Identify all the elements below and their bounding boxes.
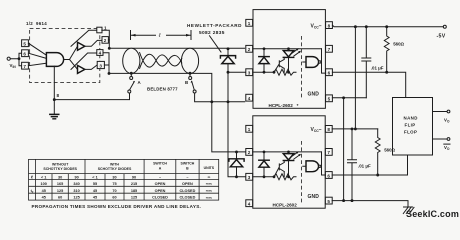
- node VIN junction: [18, 57, 21, 60]
- node schottky2 bottom: [235, 175, 238, 178]
- svg-text:55: 55: [93, 182, 97, 186]
- wire line top conductor: [109, 47, 244, 49]
- svg-text:CLOSED: CLOSED: [152, 196, 168, 200]
- schottky diode bottom (external): [236, 152, 238, 159]
- svg-text:ℓ: ℓ: [158, 33, 161, 39]
- svg-text:ℓ: ℓ: [31, 174, 33, 179]
- svg-text:–: –: [159, 175, 161, 179]
- wire ground rail to switch A: [54, 93, 129, 100]
- wire pin3 to bus: [104, 64, 109, 66]
- svg-text:WITH: WITH: [110, 162, 119, 166]
- resistor R2 560 ohm: [375, 129, 380, 175]
- wire VCC rail top: [332, 25, 443, 27]
- svg-text:30: 30: [58, 175, 62, 179]
- U3 internal resistor: [274, 174, 296, 180]
- svg-text:< 1: < 1: [92, 175, 97, 179]
- node lower rail at diode column: [227, 100, 230, 103]
- U2 output wiring to pin 6: [322, 49, 326, 73]
- U3 pin 4: [246, 200, 253, 207]
- U3 output wiring to pin 6: [322, 152, 326, 175]
- svg-text:4: 4: [99, 51, 102, 56]
- resistor R1 560 ohm: [384, 27, 389, 72]
- switch B: [190, 73, 194, 90]
- wire U3 pin5 GND row to chassis ground: [332, 201, 408, 207]
- svg-text:-5V: -5V: [437, 34, 446, 40]
- svg-text:FLIP: FLIP: [405, 123, 416, 128]
- wire VCC drop to U3 rail: [354, 27, 356, 129]
- U3 pin 2: [246, 149, 253, 156]
- svg-text:.01 μF: .01 μF: [371, 65, 384, 70]
- U2 pin 3: [246, 69, 253, 76]
- U2 internal LED: [283, 51, 293, 57]
- svg-text:PROPAGATION TIMES SHOWN EXCLUD: PROPAGATION TIMES SHOWN EXCLUDE DRIVER A…: [32, 204, 202, 209]
- wire driver gate ground stem pin 8: [53, 66, 55, 114]
- svg-text:HCPL-2602 *: HCPL-2602 *: [269, 103, 299, 108]
- svg-text:SWITCH: SWITCH: [153, 162, 167, 166]
- U3 internal input rows: [253, 152, 322, 177]
- svg-text:1/2 9614: 1/2 9614: [26, 21, 47, 26]
- node bottom bus junction: [108, 72, 111, 75]
- U3 pin 6: [325, 172, 332, 179]
- pin 3 driver: [97, 61, 104, 68]
- terminal +5V: [443, 25, 446, 28]
- svg-text:nsec: nsec: [206, 182, 213, 186]
- svg-text:5082 2835: 5082 2835: [199, 30, 225, 36]
- svg-text:FLOP: FLOP: [404, 130, 417, 135]
- U2 internal resistor: [274, 69, 296, 75]
- U2 LED light arrows: [292, 49, 300, 56]
- U3 isolation dashed line: [301, 141, 303, 203]
- schottky diode top (external): [227, 49, 229, 56]
- U3 pin 1: [246, 125, 253, 132]
- table data texts: [31, 174, 213, 199]
- svg-text:70: 70: [112, 189, 116, 193]
- wire switch B to lower rail: [195, 93, 245, 102]
- pin 2 driver: [102, 37, 108, 44]
- U3 internal protection diode: [263, 152, 265, 177]
- svg-text:CLOSED: CLOSED: [179, 189, 195, 193]
- svg-text:560Ω: 560Ω: [384, 148, 395, 153]
- svg-text:< 1: < 1: [41, 175, 46, 179]
- wire diode column down to lower rail: [228, 72, 246, 177]
- node GND bus at drop: [342, 96, 345, 99]
- node cable right shield bottom: [189, 72, 192, 75]
- node VCC rail to lower opto: [354, 25, 357, 28]
- svg-text:60: 60: [58, 196, 62, 200]
- U2 pin 5: [326, 95, 333, 102]
- node schottky top to line: [227, 47, 230, 50]
- wire U2 pin5 GND to ground bus: [332, 97, 366, 99]
- wire output VO-bar: [433, 138, 448, 140]
- U2 pin 1: [246, 19, 253, 26]
- wire pin1 to line bus: [102, 30, 110, 48]
- node R1 bottom on pin6 row: [385, 71, 388, 74]
- U3 internal transistor: [274, 161, 284, 177]
- svg-text:OPEN: OPEN: [155, 189, 166, 193]
- AND gate driver: [46, 53, 63, 67]
- node schottky2 top: [235, 150, 238, 153]
- pin 5: [22, 40, 29, 47]
- svg-text:5: 5: [23, 41, 26, 46]
- node cable left shield bottom: [130, 72, 133, 75]
- pointer line to schottky diode: [210, 36, 222, 52]
- wire output VO: [433, 111, 448, 113]
- svg-text:2: 2: [248, 150, 251, 155]
- svg-text:8: 8: [327, 127, 330, 132]
- wire pin 3 row top opto: [228, 71, 246, 73]
- switch A: [130, 73, 135, 90]
- U3 internal LED: [283, 154, 293, 160]
- node GND row at drop: [342, 199, 345, 202]
- svg-text:185: 185: [131, 189, 137, 193]
- svg-text:8: 8: [57, 93, 60, 98]
- node VCC rail to R1: [385, 25, 388, 28]
- svg-text:SWITCH: SWITCH: [180, 162, 194, 166]
- node schottky bottom to pin3 row: [227, 71, 230, 74]
- node C2 bottom on GND row: [351, 199, 354, 202]
- svg-text:45: 45: [42, 189, 46, 193]
- svg-text:165: 165: [57, 182, 63, 186]
- svg-text:90: 90: [74, 175, 78, 179]
- svg-text:nsec: nsec: [206, 196, 213, 200]
- wire pin2 to bus: [107, 39, 110, 41]
- dimension arrow cable length: [131, 31, 192, 40]
- svg-text:UNITS: UNITS: [204, 166, 215, 170]
- table header texts: [43, 162, 214, 171]
- node R2 bottom on U3 pin6 row: [376, 174, 379, 177]
- U2 pin 8: [326, 22, 333, 29]
- svg-text:30: 30: [112, 175, 116, 179]
- svg-text:HEWLETT-PACKARD: HEWLETT-PACKARD: [187, 23, 242, 28]
- svg-text:GND: GND: [308, 194, 320, 200]
- svg-text:125: 125: [131, 196, 137, 200]
- svg-text:OPEN: OPEN: [155, 182, 166, 186]
- svg-text:5: 5: [327, 199, 330, 204]
- svg-text:1: 1: [248, 127, 251, 132]
- capacitor C1 .01uF: [362, 27, 371, 98]
- pin 4 driver: [97, 50, 103, 56]
- svg-text:125: 125: [73, 196, 79, 200]
- svg-text:560Ω: 560Ω: [393, 42, 404, 47]
- pin 7: [22, 62, 29, 69]
- svg-text:3: 3: [248, 175, 251, 180]
- node driver ground junction: [53, 98, 56, 101]
- wire U2 pin6 output row to NAND input: [332, 72, 405, 97]
- twisted pair strands: [140, 53, 182, 68]
- node lower rail at bottom conductor drop: [210, 100, 213, 103]
- U2 pin 4: [246, 94, 253, 101]
- svg-text:BELDEN 8777: BELDEN 8777: [147, 87, 178, 92]
- ground chassis symbol: [403, 207, 414, 214]
- svg-text:3: 3: [99, 63, 102, 68]
- svg-text:SeekIC.com: SeekIC.com: [406, 209, 459, 219]
- svg-text:4: 4: [248, 202, 251, 207]
- svg-text:3: 3: [248, 71, 251, 76]
- wire gate output fan: [64, 46, 78, 69]
- cable right end ellipse: [181, 48, 198, 73]
- U2 pin 7: [326, 45, 333, 52]
- U2 output gate: [306, 57, 319, 68]
- cable left end ellipse: [123, 48, 140, 73]
- svg-text:6: 6: [23, 51, 26, 56]
- svg-text:8: 8: [328, 23, 331, 28]
- U2 isolation dashed line: [301, 36, 303, 99]
- svg-text:340: 340: [73, 182, 79, 186]
- node U3 rail to C2: [351, 127, 354, 130]
- svg-text:100: 100: [41, 182, 47, 186]
- svg-text:4: 4: [248, 96, 251, 101]
- svg-text:CLOSED: CLOSED: [179, 196, 195, 200]
- optocoupler U3 HCPL-2602 package (bottom): [253, 116, 325, 208]
- svg-text:310: 310: [73, 189, 79, 193]
- terminal VO-bar: [447, 138, 450, 141]
- svg-text:WITHOUT: WITHOUT: [52, 162, 69, 166]
- svg-text:6: 6: [328, 71, 331, 76]
- svg-text:75: 75: [112, 182, 116, 186]
- wire buffer2 complementary diagonal to pin 4: [71, 53, 97, 69]
- NAND flip flop box: [393, 98, 433, 156]
- U3 pin 8: [325, 126, 332, 133]
- svg-text:.01 μF: .01 μF: [358, 164, 371, 169]
- U2 internal protection diode: [263, 49, 265, 72]
- node top bus junction: [108, 47, 111, 50]
- svg-text:7: 7: [23, 64, 26, 69]
- terminal VO: [447, 110, 450, 113]
- wire buffer1 complementary diagonal to pin 1: [71, 30, 97, 46]
- node VCC rail to C1: [365, 25, 368, 28]
- svg-text:SCHOTTKY DIODES: SCHOTTKY DIODES: [43, 167, 77, 171]
- pin 6: [22, 50, 29, 57]
- U2 internal transistor: [274, 57, 284, 72]
- U3 pin 3: [246, 173, 253, 180]
- svg-text:45: 45: [93, 189, 97, 193]
- svg-text:–: –: [186, 175, 188, 179]
- svg-text:7: 7: [328, 47, 331, 52]
- U2 pin 6: [326, 69, 333, 76]
- svg-text:125: 125: [57, 189, 63, 193]
- wire VCC rail U3: [332, 128, 378, 130]
- table propagation times: [29, 159, 219, 200]
- svg-text:7: 7: [327, 150, 330, 155]
- svg-text:NAND: NAND: [404, 116, 418, 121]
- U2 pin 2: [246, 45, 253, 52]
- svg-text:m: m: [208, 175, 211, 179]
- svg-text:90: 90: [132, 175, 136, 179]
- svg-text:HCPL-2602: HCPL-2602: [273, 203, 298, 208]
- wire buffer1 output: [85, 40, 102, 46]
- svg-text:2: 2: [248, 47, 251, 52]
- svg-text:45: 45: [42, 196, 46, 200]
- wire gate inputs: [28, 43, 46, 65]
- pin 1 driver: [97, 27, 102, 33]
- svg-text:nsec: nsec: [206, 189, 213, 193]
- optocoupler U2 HCPL-2602 package (top): [253, 10, 325, 109]
- svg-text:5: 5: [328, 97, 331, 102]
- svg-text:GND: GND: [308, 91, 320, 97]
- svg-text:215: 215: [131, 182, 137, 186]
- U3 output gate: [306, 161, 319, 172]
- U2 internal input rows: [253, 49, 322, 72]
- wire GND drop to bottom: [343, 98, 345, 201]
- svg-text:45: 45: [93, 196, 97, 200]
- capacitor C2 .01uF: [348, 129, 357, 201]
- U3 pin 5: [325, 197, 332, 204]
- wire U3 pin6 output row to NAND input: [332, 156, 407, 175]
- driver IC dashed outline 1/2 9614: [30, 29, 100, 83]
- svg-text:2: 2: [104, 38, 107, 43]
- ground driver earth symbol: [50, 114, 59, 118]
- svg-text:OPEN: OPEN: [182, 182, 193, 186]
- svg-text:SCHOTTKY DIODES: SCHOTTKY DIODES: [98, 167, 132, 171]
- U3 pin 7: [325, 149, 332, 156]
- buffer top triangle: [78, 42, 85, 50]
- node U3 rail from VCC drop: [354, 127, 357, 130]
- svg-text:60: 60: [112, 196, 116, 200]
- input terminal VIN: [7, 57, 10, 60]
- wire pin4 to bottom bus: [103, 53, 109, 74]
- wire buffer2 output: [85, 65, 97, 70]
- svg-text:1: 1: [248, 21, 251, 26]
- svg-text:1: 1: [104, 25, 107, 30]
- svg-text:B: B: [185, 80, 188, 85]
- wire VIN to pins 6 and 7: [10, 53, 21, 65]
- U3 LED light arrows: [292, 152, 300, 159]
- wire line bottom conductor: [109, 73, 246, 151]
- svg-text:6: 6: [327, 173, 330, 178]
- buffer bottom triangle: [78, 65, 85, 73]
